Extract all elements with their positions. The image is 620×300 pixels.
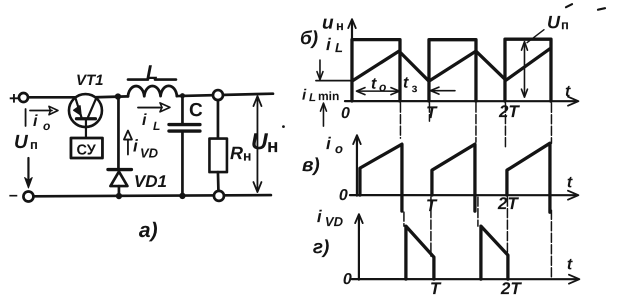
svg-text:VD: VD [140, 146, 159, 161]
svg-text:2T: 2T [498, 102, 520, 121]
wire resistor branch top [217, 100, 220, 138]
label i_VD graph g [317, 207, 344, 229]
waveform i_L sawtooth [352, 49, 550, 82]
terminal plus input [9, 89, 28, 108]
svg-text:u: u [322, 13, 334, 34]
svg-text:+: + [9, 89, 19, 108]
waveform u_H pulse 1 [352, 40, 400, 102]
svg-text:VD1: VD1 [134, 172, 167, 191]
speck marks top right [566, 4, 605, 10]
node A junction dot [115, 93, 121, 99]
graph g t axis [352, 256, 580, 284]
svg-text:t: t [567, 256, 573, 273]
dimension arrow i_Lmin lower [320, 103, 326, 126]
svg-text:i: i [317, 207, 323, 226]
svg-text:в): в) [302, 155, 320, 176]
svg-text:t: t [565, 83, 571, 100]
diode VD1 [108, 170, 132, 197]
voltage label U_p input [14, 132, 38, 153]
svg-text:L: L [309, 92, 316, 104]
svg-text:U: U [547, 12, 561, 32]
label i_o graph v [326, 134, 343, 156]
svg-text:VD: VD [325, 214, 344, 229]
dimension arrow t_3 [403, 75, 455, 96]
wire node A to output terminal [177, 94, 273, 96]
waveform u_H pulse 3 [505, 39, 551, 101]
graph g y axis [355, 214, 363, 280]
svg-text:СУ: СУ [76, 143, 96, 159]
graph v t axis [350, 174, 579, 200]
svg-text:o: o [379, 80, 386, 94]
voltage arrow U_p pointing down [25, 158, 33, 188]
svg-text:н: н [267, 136, 278, 157]
svg-text:U: U [14, 132, 29, 153]
svg-text:п: п [30, 137, 38, 152]
svg-text:0: 0 [341, 105, 350, 122]
svg-text:T: T [430, 279, 442, 298]
svg-text:L: L [153, 119, 160, 133]
waveform i_VD pulse 2 [481, 226, 508, 279]
current arrow i_L [138, 103, 170, 133]
label u_H [322, 13, 344, 34]
graph b t axis [345, 83, 579, 106]
wire diode branch vertical [117, 97, 120, 168]
svg-text:o: o [335, 141, 343, 156]
svg-text:н: н [336, 18, 344, 33]
waveform i_o pulse 3 [507, 143, 550, 212]
svg-text:2T: 2T [500, 279, 522, 298]
dashed tie lines below graph v [404, 197, 552, 279]
svg-text:0: 0 [343, 271, 352, 288]
svg-text:T: T [426, 103, 438, 122]
svg-text:–: – [9, 187, 18, 204]
graph v y axis [353, 135, 361, 196]
svg-text:t: t [371, 76, 377, 93]
wire collector to node A [96, 95, 128, 99]
leader line U_p [527, 30, 544, 43]
svg-text:г): г) [313, 237, 329, 258]
junction dot capacitor top [180, 93, 185, 98]
svg-text:п: п [561, 17, 569, 32]
svg-text:min: min [318, 89, 339, 103]
current arrow i_o [26, 106, 58, 133]
waveform i_o pulse 1 [360, 144, 402, 211]
wire base lead to control unit [85, 120, 87, 138]
svg-text:i: i [302, 87, 307, 104]
terminal output top [213, 90, 223, 100]
wire resistor branch bottom [217, 172, 220, 191]
svg-text:L: L [335, 40, 343, 55]
inductor L [128, 80, 177, 97]
resistor RH [209, 139, 251, 173]
junction dot capacitor bottom [179, 193, 185, 199]
dimension arrow t_o [356, 76, 399, 95]
waveform u_H pulse 2 [429, 40, 476, 102]
svg-text:o: o [43, 119, 50, 133]
label i_L top graph [326, 35, 343, 55]
voltage arrow U_H output [251, 96, 285, 192]
graph b y axis [348, 19, 356, 102]
svg-text:L: L [146, 62, 158, 84]
waveform i_o pulse 2 [432, 144, 475, 211]
wire top left from + terminal to transistor [28, 96, 75, 99]
svg-text:i: i [133, 137, 139, 156]
svg-text:а): а) [139, 219, 158, 242]
control unit box СУ [71, 138, 103, 159]
svg-text:i: i [326, 134, 332, 153]
svg-text:VT1: VT1 [76, 72, 104, 89]
waveform i_VD pulse 1 [406, 226, 434, 279]
label U_p amplitude [547, 12, 569, 32]
svg-text:i: i [142, 112, 147, 129]
level line i_Lmin [316, 80, 352, 82]
label i_Lmin [302, 87, 339, 105]
transistor VT1 [69, 94, 102, 127]
svg-text:C: C [189, 100, 203, 121]
dimension arrow U_p vertical [521, 42, 527, 98]
svg-text:б): б) [300, 28, 318, 49]
current arrow i_VD [124, 131, 159, 161]
svg-text:t: t [567, 174, 573, 191]
svg-text:T: T [426, 196, 438, 215]
svg-text:0: 0 [339, 187, 348, 204]
svg-text:R: R [230, 143, 243, 163]
svg-text:t: t [403, 75, 409, 92]
svg-text:i: i [33, 113, 38, 130]
dashed tie lines below graph b [400, 103, 551, 148]
capacitor C [169, 96, 200, 196]
terminal output bottom [214, 191, 224, 201]
svg-text:i: i [326, 35, 332, 54]
dimension arrow i_Lmin upper [317, 60, 323, 80]
svg-text:з: з [411, 81, 417, 95]
terminal minus input [9, 187, 34, 204]
junction dot diode bottom [116, 193, 122, 199]
wire bottom rail [33, 195, 271, 196]
